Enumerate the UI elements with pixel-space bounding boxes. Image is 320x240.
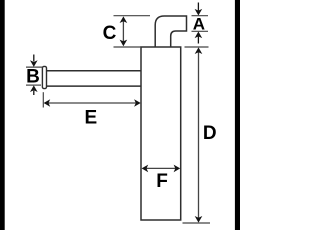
dim D top tick (185, 46, 209, 48)
muffler body (141, 47, 181, 220)
left border bar (0, 0, 5, 230)
dim A bottom tick (192, 30, 209, 32)
dim A top tick (192, 15, 209, 17)
dim C bottom extension line (114, 46, 142, 48)
dim D arrow (195, 47, 203, 222)
svg-text:A: A (193, 15, 205, 34)
dim B upper arrow (30, 55, 38, 67)
dim A lower arrow (195, 32, 203, 44)
svg-text:B: B (26, 67, 40, 88)
right border bar (235, 0, 240, 230)
dim C top extension line (114, 15, 151, 17)
svg-text:F: F (156, 171, 168, 192)
inlet flange (42, 66, 46, 88)
inlet pipe top wall (46, 70, 141, 72)
dim E extension line (42, 92, 44, 107)
inlet pipe bottom wall (46, 85, 141, 87)
dim C arrow (120, 16, 128, 46)
dim B bottom tick (26, 84, 41, 86)
dim B top tick (26, 66, 43, 68)
dim B lower arrow (30, 85, 38, 95)
dim F arrow (142, 165, 181, 173)
svg-text:D: D (203, 123, 217, 144)
dim D bottom extension line (183, 222, 211, 224)
outlet elbow pipe (155, 16, 186, 49)
svg-text:E: E (84, 107, 97, 128)
dim E arrow (44, 99, 141, 107)
dim A upper arrow (195, 3, 203, 16)
svg-text:C: C (103, 23, 117, 44)
